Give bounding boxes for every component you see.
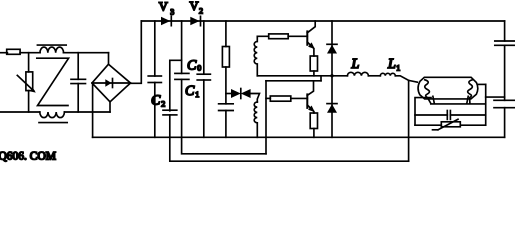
choke core bottom [39, 122, 67, 124]
diode V2 [190, 17, 199, 25]
lamp filament left [425, 80, 431, 104]
capacitor (diac) [219, 103, 234, 105]
wire [368, 75, 380, 77]
transistor Q1 [306, 31, 308, 44]
choke winding bottom [40, 112, 65, 118]
varistor RV [28, 53, 30, 72]
svg-text:L: L [351, 57, 360, 72]
svg-text:1: 1 [195, 90, 199, 99]
resistor Q1 emitter [310, 56, 317, 71]
wire A C0 bottom to midpoint riser [182, 79, 266, 153]
wire midpoint lower [266, 80, 321, 82]
wire jog from C0 line [170, 60, 182, 111]
lamp filament right [468, 80, 473, 104]
drive transformer winding W1 [254, 36, 269, 76]
capacitor C1 [203, 21, 205, 74]
svg-text:0: 0 [197, 64, 201, 73]
wire loop to rail [486, 96, 505, 98]
diode D1 [331, 21, 333, 76]
drive transformer winding W2 [254, 102, 257, 137]
capacitor (on jog line) [163, 109, 177, 111]
resistor (diac charge) [225, 21, 227, 47]
wire [64, 111, 110, 113]
wire [288, 35, 307, 37]
capacitor right bottom [494, 99, 515, 101]
svg-text:2: 2 [199, 7, 203, 16]
svg-text:3: 3 [170, 7, 174, 16]
bottom rail [93, 136, 505, 138]
capacitor C2 [154, 21, 156, 76]
resistor Q2 base [270, 96, 291, 101]
diode V3 [161, 17, 170, 25]
svg-text:C: C [185, 84, 195, 99]
X-capacitor [77, 53, 79, 80]
Z link [37, 58, 69, 105]
inductor L1 [380, 73, 395, 76]
lamp loop left vertical [415, 98, 431, 126]
top rail [141, 20, 504, 22]
wire lamp right to rail [478, 83, 486, 85]
bridge rectifier [108, 53, 110, 64]
diode D2 [331, 76, 333, 138]
wire lamp return riser [408, 80, 410, 161]
svg-text:C: C [151, 94, 161, 109]
diac [226, 93, 231, 95]
junction [330, 74, 333, 77]
lamp tube [418, 77, 478, 99]
lamp loop right vertical [485, 84, 487, 125]
resistor Q1 base [269, 34, 289, 39]
capacitor C0 [181, 21, 183, 73]
wire [64, 52, 109, 54]
wire midpoint [257, 75, 347, 77]
svg-text:V: V [159, 0, 168, 14]
wire to lamp [395, 76, 417, 82]
wire [20, 52, 40, 54]
lamp loop bottom wire [415, 124, 441, 126]
right rail [504, 21, 506, 41]
svg-text:Q606. COM: Q606. COM [0, 150, 56, 162]
choke core top [37, 44, 66, 46]
wire AC bottom input [0, 111, 40, 113]
resistor Q2 emitter [310, 113, 317, 129]
lamp pins wire [431, 103, 486, 105]
PTC thermistor [441, 122, 460, 127]
choke winding top [40, 47, 64, 53]
lamp loop cap wire [415, 114, 447, 116]
svg-text:V: V [190, 0, 199, 13]
wire B lamp return [170, 115, 409, 161]
svg-text:1: 1 [396, 63, 400, 72]
transistor Q2 [306, 94, 308, 108]
wire AC top input [0, 52, 7, 54]
wire bridge DC+ riser [131, 21, 142, 83]
svg-text:2: 2 [161, 100, 165, 109]
capacitor right top [495, 40, 515, 42]
resistor R1 (series input) [7, 49, 20, 54]
svg-text:L: L [387, 57, 396, 72]
svg-text:C: C [187, 59, 197, 74]
inductor L [347, 72, 368, 76]
capacitor (lamp loop) [446, 111, 448, 120]
